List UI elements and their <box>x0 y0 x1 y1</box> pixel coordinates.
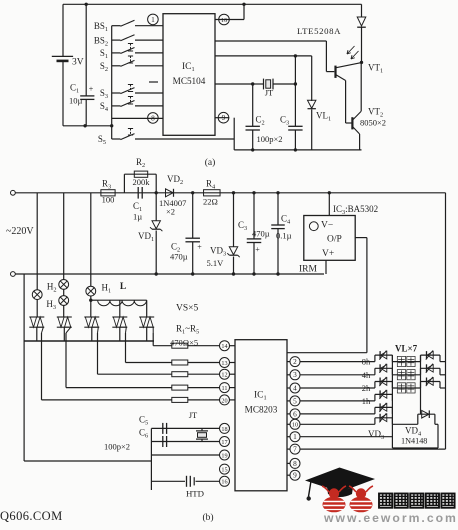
svg-text:200k: 200k <box>133 177 151 187</box>
svg-text:9: 9 <box>293 471 297 480</box>
svg-text:5: 5 <box>293 396 297 405</box>
svg-text:(a): (a) <box>205 157 216 168</box>
svg-text:+: + <box>255 245 260 254</box>
svg-text:(b): (b) <box>202 512 213 523</box>
svg-text:+: + <box>197 243 202 252</box>
svg-text:470µ: 470µ <box>252 228 270 238</box>
svg-text:VS×5: VS×5 <box>176 304 199 314</box>
svg-text:6: 6 <box>293 409 297 418</box>
svg-text:3: 3 <box>293 370 297 379</box>
svg-text:O/P: O/P <box>327 235 342 245</box>
svg-text:14: 14 <box>221 343 227 350</box>
svg-text:0.1µ: 0.1µ <box>276 231 292 241</box>
svg-text:1N4148: 1N4148 <box>401 437 427 446</box>
svg-text:470Ω×5: 470Ω×5 <box>170 337 198 347</box>
svg-text:12: 12 <box>221 372 227 379</box>
svg-text:L: L <box>120 282 126 292</box>
svg-text:16: 16 <box>221 479 227 486</box>
svg-text:5.1V: 5.1V <box>207 258 225 268</box>
svg-text:IRM: IRM <box>299 265 318 275</box>
svg-text:470µ: 470µ <box>170 252 188 262</box>
svg-text:100p×2: 100p×2 <box>257 134 283 144</box>
svg-text:17: 17 <box>221 439 227 446</box>
svg-text:1h: 1h <box>362 396 371 406</box>
svg-text:22Ω: 22Ω <box>203 197 218 207</box>
svg-text:8050×2: 8050×2 <box>360 118 386 128</box>
svg-text:JT: JT <box>189 410 198 420</box>
svg-text:MC5104: MC5104 <box>173 76 206 86</box>
svg-text:10: 10 <box>292 422 298 429</box>
svg-text:10µ: 10µ <box>69 96 83 106</box>
svg-text:7: 7 <box>293 445 297 454</box>
svg-text:www.eeworm.com: www.eeworm.com <box>323 511 458 525</box>
svg-text:8h: 8h <box>362 357 371 367</box>
svg-text:MC8203: MC8203 <box>245 405 278 415</box>
svg-text:15: 15 <box>221 467 227 474</box>
svg-text:19: 19 <box>221 452 227 459</box>
svg-text:4: 4 <box>293 383 297 392</box>
svg-text:2: 2 <box>293 357 297 366</box>
svg-text:Q606.COM: Q606.COM <box>0 509 63 523</box>
svg-text:~220V: ~220V <box>6 226 34 237</box>
svg-text:JT: JT <box>265 88 274 98</box>
svg-text:1: 1 <box>151 15 155 24</box>
svg-text:1µ: 1µ <box>133 212 142 222</box>
svg-text:2h: 2h <box>362 383 371 393</box>
svg-text:1: 1 <box>293 432 297 441</box>
svg-text:13: 13 <box>221 360 227 367</box>
svg-text:4h: 4h <box>362 370 371 380</box>
svg-text:+: + <box>89 85 94 94</box>
svg-text:100: 100 <box>102 194 115 204</box>
svg-text:3V: 3V <box>72 58 84 68</box>
svg-text:18: 18 <box>221 426 227 433</box>
svg-text:HTD: HTD <box>186 489 204 499</box>
svg-text:VL×7: VL×7 <box>395 344 418 354</box>
svg-text:LTE5208A: LTE5208A <box>297 26 341 36</box>
svg-text:8: 8 <box>293 459 297 468</box>
svg-text:V−: V− <box>321 221 333 231</box>
svg-text:16: 16 <box>221 17 227 24</box>
svg-text:20: 20 <box>221 397 227 404</box>
svg-text:100p×2: 100p×2 <box>104 442 130 452</box>
svg-text:V+: V+ <box>322 249 334 259</box>
svg-text:11: 11 <box>222 385 228 392</box>
svg-text:×2: ×2 <box>166 207 175 217</box>
